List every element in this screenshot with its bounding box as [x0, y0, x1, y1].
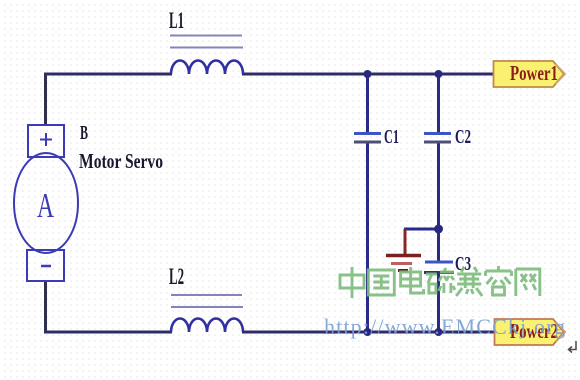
capacitor C2: [424, 126, 471, 148]
svg-text:B: B: [80, 122, 88, 144]
svg-text:http://www.EMCCkj.org: http://www.EMCCkj.org: [324, 314, 566, 339]
carriage-return mark: [569, 341, 577, 353]
inductor L1: [169, 8, 243, 74]
power port Power1: [494, 61, 566, 87]
wire motor top lead vertical: [44, 73, 47, 126]
node junction top C2: [435, 70, 443, 78]
node junction bottom C1: [364, 328, 372, 336]
jian: [456, 267, 482, 296]
svg-text:A: A: [37, 186, 54, 225]
power port Power2: [495, 319, 566, 345]
wire ground branch horizontal: [404, 228, 438, 231]
node junction bottom C3: [435, 328, 443, 336]
ground: [386, 256, 421, 271]
wang: [516, 269, 540, 296]
wire C1 lower lead: [366, 143, 369, 332]
motor B (Motor Servo): [14, 122, 163, 281]
rong: [486, 266, 512, 295]
capacitor C1: [354, 126, 399, 148]
svg-text:Motor Servo: Motor Servo: [79, 149, 163, 173]
svg-text:Power1: Power1: [510, 61, 558, 85]
wire ground stem vertical: [404, 229, 407, 254]
wire bottom-right horizontal: [242, 331, 494, 334]
zhong: [340, 267, 364, 298]
capacitor C3: [424, 253, 471, 275]
wire C1 upper lead: [366, 74, 369, 132]
svg-text:L2: L2: [169, 264, 184, 289]
node junction top C1: [364, 70, 372, 78]
ci: [426, 268, 455, 293]
svg-text:L1: L1: [169, 8, 184, 33]
wire bottom-left horizontal: [44, 331, 172, 334]
wire top-left horizontal: [44, 73, 172, 76]
dian: [401, 267, 424, 293]
wire motor bottom lead vertical: [44, 281, 47, 333]
node junction C2-C3-ground: [434, 225, 443, 234]
wire C2-C3 middle lead: [437, 143, 440, 261]
wire C2 upper lead: [437, 74, 440, 132]
wire C3 lower lead: [437, 273, 440, 332]
svg-text:C1: C1: [384, 126, 399, 148]
wire top-right horizontal: [242, 73, 494, 76]
guo: [368, 270, 394, 295]
inductor L2: [169, 264, 243, 332]
watermark line 1 (Chinese characters, drawn strokes): [340, 266, 540, 298]
svg-text:C2: C2: [455, 126, 471, 148]
